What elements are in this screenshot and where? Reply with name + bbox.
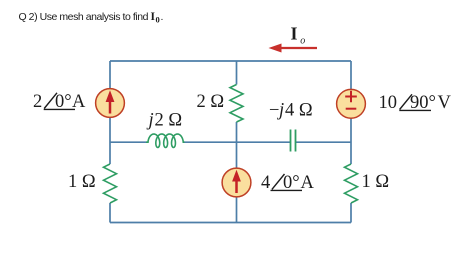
svg-text:4 Ω: 4 Ω bbox=[285, 101, 313, 121]
capacitor -j4 ohm bbox=[291, 130, 296, 152]
svg-text:2 Ω: 2 Ω bbox=[155, 111, 183, 131]
resistor 2 ohm bbox=[230, 85, 243, 123]
wire: middle vertical segments bbox=[236, 61, 238, 223]
label 2 ohm bbox=[197, 92, 225, 112]
wire: right vertical segments bbox=[350, 61, 352, 223]
label -j4 ohm bbox=[269, 101, 313, 121]
current Io arrow bbox=[269, 44, 318, 53]
svg-text:A: A bbox=[301, 173, 315, 193]
svg-text:0: 0 bbox=[156, 15, 160, 25]
svg-text:j: j bbox=[277, 101, 284, 121]
title text bbox=[19, 11, 164, 25]
label 4 angle 0 A bbox=[261, 173, 315, 193]
voltage source 10&lt;90 V bbox=[337, 89, 366, 118]
wire: top horizontal bbox=[110, 60, 351, 62]
resistor 1 ohm left bbox=[104, 164, 117, 203]
svg-text:4: 4 bbox=[261, 173, 270, 193]
label 1 ohm left bbox=[68, 172, 96, 192]
wire: middle horizontal center segment bbox=[184, 141, 290, 143]
wire: middle horizontal right segment bbox=[296, 141, 351, 143]
label Io bbox=[291, 24, 306, 47]
label j2 ohm bbox=[147, 111, 183, 131]
svg-text:−: − bbox=[269, 101, 279, 121]
wire: bottom horizontal bbox=[110, 222, 351, 224]
svg-text:10: 10 bbox=[379, 93, 398, 113]
label 2 angle 0 A bbox=[33, 92, 86, 112]
inductor j2 ohm bbox=[146, 134, 185, 148]
svg-text:2: 2 bbox=[33, 92, 42, 112]
resistor 1 ohm right bbox=[345, 164, 358, 203]
svg-text:.: . bbox=[161, 11, 164, 23]
svg-text:Q 2) Use mesh analysis to find: Q 2) Use mesh analysis to find bbox=[19, 11, 149, 23]
svg-text:2 Ω: 2 Ω bbox=[197, 92, 225, 112]
wire: left vertical segments bbox=[109, 61, 111, 223]
label 10 angle 90 V bbox=[379, 93, 452, 113]
svg-text:V: V bbox=[438, 93, 452, 113]
svg-text:j: j bbox=[147, 111, 154, 131]
label 1 ohm right bbox=[362, 172, 390, 192]
svg-text:1 Ω: 1 Ω bbox=[68, 172, 96, 192]
svg-text:1 Ω: 1 Ω bbox=[362, 172, 390, 192]
wire: middle horizontal left segment bbox=[110, 141, 147, 143]
current source 2&lt;0 A bbox=[96, 89, 125, 118]
svg-text:o: o bbox=[300, 36, 305, 47]
current source 4&lt;0 A bbox=[222, 168, 251, 197]
svg-text:I: I bbox=[291, 24, 298, 44]
